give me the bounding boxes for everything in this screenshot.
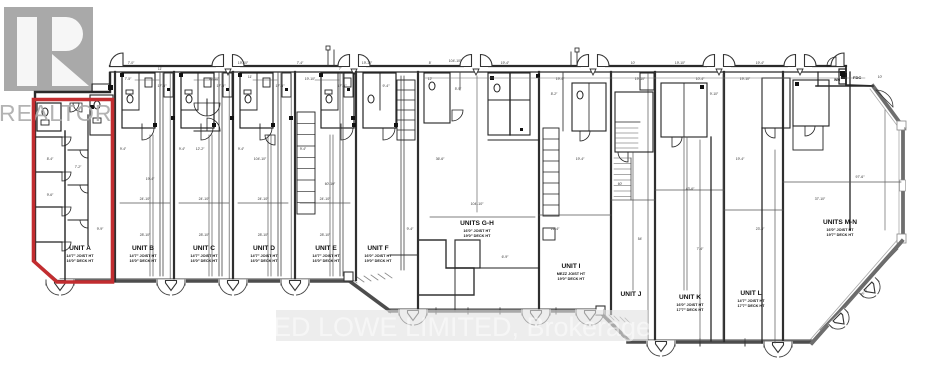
svg-text:36′-6″: 36′-6″	[436, 157, 445, 161]
svg-text:MEZZ JOIST HT: MEZZ JOIST HT	[557, 272, 586, 276]
svg-text:60′-10″: 60′-10″	[325, 182, 336, 186]
svg-text:16′0″ DECK HT: 16′0″ DECK HT	[191, 259, 219, 263]
svg-text:FDC: FDC	[853, 75, 861, 80]
svg-text:19′-10″: 19′-10″	[740, 77, 751, 81]
svg-text:9′-4″: 9′-4″	[383, 84, 391, 88]
svg-text:9′-4″: 9′-4″	[407, 227, 415, 231]
svg-text:9′-9″: 9′-9″	[97, 227, 104, 231]
svg-text:19′-4″: 19′-4″	[756, 61, 765, 65]
svg-text:7′-4″: 7′-4″	[697, 247, 705, 251]
svg-text:24′-10″: 24′-10″	[199, 197, 211, 201]
svg-text:19′-4″: 19′-4″	[576, 157, 585, 161]
svg-text:19′-4″: 19′-4″	[736, 157, 745, 161]
svg-text:19′-10″: 19′-10″	[305, 77, 316, 81]
svg-text:UNIT A: UNIT A	[69, 245, 91, 252]
svg-text:23′-4″: 23′-4″	[756, 227, 765, 231]
svg-text:UNIT B: UNIT B	[132, 245, 154, 252]
svg-text:28′-10″: 28′-10″	[258, 233, 269, 237]
svg-text:104′-10″: 104′-10″	[449, 59, 462, 63]
svg-text:UNITS M-N: UNITS M-N	[823, 219, 857, 226]
svg-text:9′-4″: 9′-4″	[300, 147, 307, 151]
svg-text:17′-5″: 17′-5″	[217, 84, 227, 88]
svg-text:19′-10″: 19′-10″	[238, 61, 249, 65]
svg-text:11′: 11′	[158, 67, 163, 71]
svg-text:UNITS G-H: UNITS G-H	[460, 220, 494, 227]
svg-text:7′-4″: 7′-4″	[297, 61, 304, 65]
svg-text:17′-5″: 17′-5″	[338, 84, 348, 88]
svg-text:5′: 5′	[904, 127, 907, 131]
svg-text:19′-10″: 19′-10″	[675, 61, 686, 65]
svg-text:60′: 60′	[618, 182, 623, 186]
svg-text:16′0″ DECK HT: 16′0″ DECK HT	[67, 259, 95, 263]
svg-text:UNIT I: UNIT I	[561, 263, 580, 270]
svg-text:19′7″ DECK HT: 19′7″ DECK HT	[827, 233, 855, 237]
svg-text:16′0″ JOIST HT: 16′0″ JOIST HT	[826, 228, 854, 232]
svg-text:24′-10″: 24′-10″	[140, 197, 152, 201]
svg-text:14′7″ JOIST HT: 14′7″ JOIST HT	[250, 254, 278, 258]
svg-text:10′: 10′	[631, 61, 636, 65]
svg-text:19′-4″: 19′-4″	[501, 61, 510, 65]
svg-text:UNIT K: UNIT K	[679, 294, 701, 301]
svg-text:ED LOWE LIMITED, Brokerage: ED LOWE LIMITED, Brokerage	[273, 312, 651, 342]
svg-text:6′-9″: 6′-9″	[502, 255, 510, 259]
svg-text:10′: 10′	[878, 75, 883, 79]
svg-text:8′-4″: 8′-4″	[47, 157, 54, 161]
svg-text:14′7″ JOIST HT: 14′7″ JOIST HT	[737, 299, 765, 303]
svg-text:12′: 12′	[428, 77, 433, 81]
svg-text:19′0″ DECK HT: 19′0″ DECK HT	[558, 277, 586, 281]
svg-text:UNIT C: UNIT C	[193, 245, 215, 252]
svg-text:REALTOR: REALTOR	[0, 100, 113, 126]
svg-text:14′7″ JOIST HT: 14′7″ JOIST HT	[190, 254, 218, 258]
svg-text:54′: 54′	[638, 237, 643, 241]
svg-text:19′-4″: 19′-4″	[556, 77, 565, 81]
svg-text:5′-9″: 5′-9″	[455, 87, 462, 91]
svg-text:16′0″ DECK HT: 16′0″ DECK HT	[313, 259, 341, 263]
svg-text:7′-2″: 7′-2″	[75, 165, 82, 169]
svg-text:28′-10″: 28′-10″	[199, 233, 210, 237]
svg-text:17′7″ DECK HT: 17′7″ DECK HT	[677, 308, 705, 312]
svg-text:UNIT J: UNIT J	[621, 291, 642, 298]
svg-text:7′-5″: 7′-5″	[125, 77, 133, 81]
svg-text:104′-10″: 104′-10″	[471, 202, 485, 206]
svg-text:19′0″ DECK HT: 19′0″ DECK HT	[365, 259, 393, 263]
svg-text:11′: 11′	[248, 75, 253, 79]
svg-text:14′7″ JOIST HT: 14′7″ JOIST HT	[129, 254, 157, 258]
svg-text:7′: 7′	[339, 67, 342, 71]
svg-text:104′-10″: 104′-10″	[254, 157, 267, 161]
svg-text:7′-0″: 7′-0″	[128, 61, 135, 65]
svg-text:16′0″ JOIST HT: 16′0″ JOIST HT	[463, 229, 491, 233]
svg-text:97′-6″: 97′-6″	[856, 175, 866, 179]
svg-text:8′-2″: 8′-2″	[551, 92, 558, 96]
svg-text:17′-5″: 17′-5″	[276, 84, 286, 88]
svg-text:UNIT D: UNIT D	[253, 245, 275, 252]
svg-text:17′7″ DECK HT: 17′7″ DECK HT	[738, 304, 766, 308]
svg-text:9′-4″: 9′-4″	[238, 147, 245, 151]
svg-text:9′-6″: 9′-6″	[47, 193, 54, 197]
svg-text:12′-2″: 12′-2″	[196, 147, 205, 151]
svg-text:19′-10″: 19′-10″	[362, 61, 373, 65]
svg-text:16′0″ JOIST HT: 16′0″ JOIST HT	[364, 254, 392, 258]
svg-text:UNIT L: UNIT L	[740, 290, 761, 297]
svg-text:9′-10″: 9′-10″	[710, 92, 719, 96]
svg-text:14′7″ JOIST HT: 14′7″ JOIST HT	[312, 254, 340, 258]
svg-text:19′0″ DECK HT: 19′0″ DECK HT	[464, 234, 492, 238]
svg-text:37′-10″: 37′-10″	[815, 197, 826, 201]
svg-text:16′0″ DECK HT: 16′0″ DECK HT	[130, 259, 158, 263]
svg-text:19′-4″: 19′-4″	[146, 177, 155, 181]
svg-text:28′-10″: 28′-10″	[140, 233, 151, 237]
svg-text:9′-4″: 9′-4″	[120, 147, 127, 151]
svg-text:28′-10″: 28′-10″	[320, 233, 331, 237]
svg-text:9′-4″: 9′-4″	[179, 147, 186, 151]
svg-text:8′: 8′	[429, 61, 432, 65]
svg-text:14′7″ JOIST HT: 14′7″ JOIST HT	[66, 254, 94, 258]
svg-text:10′-4″: 10′-4″	[696, 77, 705, 81]
svg-text:19′-10″: 19′-10″	[635, 77, 646, 81]
svg-text:16′0″ DECK HT: 16′0″ DECK HT	[251, 259, 279, 263]
svg-text:16′0″ JOIST HT: 16′0″ JOIST HT	[676, 303, 704, 307]
svg-text:24′-10″: 24′-10″	[320, 197, 332, 201]
svg-text:UNIT F: UNIT F	[367, 245, 388, 252]
svg-text:UNIT E: UNIT E	[315, 245, 337, 252]
svg-text:21′-4″: 21′-4″	[551, 227, 560, 231]
svg-text:43′-6″: 43′-6″	[686, 187, 695, 191]
svg-text:24′-10″: 24′-10″	[258, 197, 270, 201]
svg-text:19′-10″: 19′-10″	[209, 77, 220, 81]
svg-text:17′-5″: 17′-5″	[158, 84, 168, 88]
